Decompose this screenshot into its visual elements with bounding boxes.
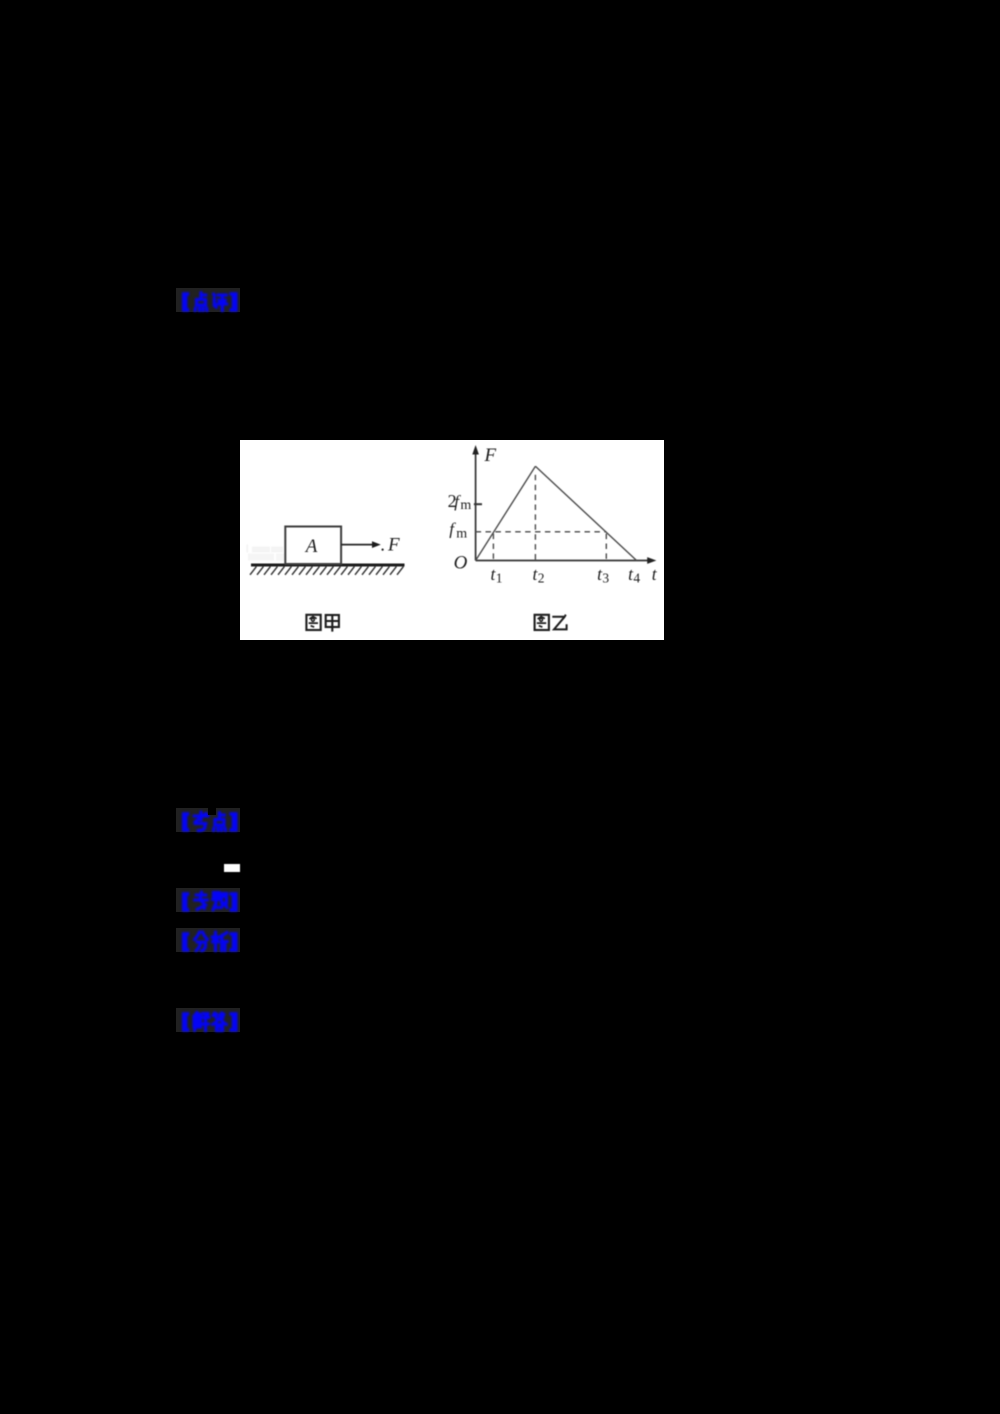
char kao xyxy=(194,812,208,830)
x-axis xyxy=(476,559,649,561)
dashed vertical t3 xyxy=(605,533,607,560)
svg-text:O: O xyxy=(454,552,468,573)
svg-text:f: f xyxy=(449,519,456,538)
label [dianping] blue tag xyxy=(176,288,240,312)
svg-text:m: m xyxy=(460,498,471,513)
shared bracket glyph defs xyxy=(0,0,1,1)
svg-text:A: A xyxy=(304,536,318,557)
svg-text:m: m xyxy=(456,526,467,541)
svg-text:1: 1 xyxy=(496,570,503,585)
dashed vertical t1 xyxy=(492,533,494,560)
falling line xyxy=(535,466,636,560)
dashed horizontal fm xyxy=(476,530,607,532)
white blank dash xyxy=(224,864,240,872)
rising line xyxy=(476,466,536,560)
caption tu-jia xyxy=(306,614,339,631)
label [kaodian] blue tag xyxy=(176,808,240,832)
notch on kaodian box xyxy=(208,808,215,816)
svg-text:t: t xyxy=(652,564,658,584)
char xi xyxy=(212,932,227,951)
tick 2fm xyxy=(474,503,482,505)
char zhuan xyxy=(195,892,208,909)
force arrow F xyxy=(341,543,373,545)
char fen xyxy=(195,932,208,951)
char dian xyxy=(195,292,207,310)
figure image xyxy=(240,440,664,641)
ground hatching xyxy=(250,566,403,574)
char jie xyxy=(194,1013,209,1032)
svg-text:4: 4 xyxy=(633,570,640,585)
label [fenxi] blue tag xyxy=(176,928,240,952)
svg-text:F: F xyxy=(387,534,400,555)
svg-text:2: 2 xyxy=(538,570,545,585)
block A xyxy=(285,526,341,564)
ground line xyxy=(251,563,405,566)
y-axis xyxy=(475,449,477,561)
dashed vertical t2 xyxy=(534,474,536,560)
faint watermark remnant xyxy=(247,544,285,560)
char da xyxy=(213,1013,227,1031)
label [jieda] blue tag xyxy=(176,1008,240,1032)
svg-text:F: F xyxy=(484,445,497,466)
char ping xyxy=(213,294,226,311)
char ti xyxy=(213,893,227,910)
label [zhuanti] blue tag xyxy=(176,888,240,911)
char dian xyxy=(213,812,225,830)
caption tu-yi xyxy=(535,614,567,629)
svg-text:3: 3 xyxy=(602,570,609,585)
